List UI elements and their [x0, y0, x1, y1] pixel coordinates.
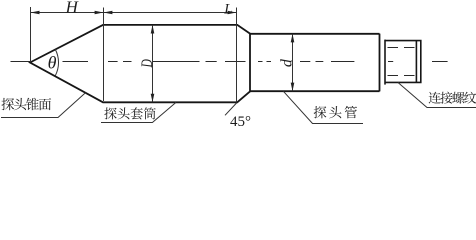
- svg-text:θ: θ: [48, 53, 57, 73]
- svg-text:d: d: [279, 58, 296, 67]
- svg-text:D: D: [140, 59, 157, 68]
- svg-text:45°: 45°: [230, 114, 251, 130]
- svg-text:H: H: [65, 0, 80, 16]
- svg-text:L: L: [223, 1, 232, 17]
